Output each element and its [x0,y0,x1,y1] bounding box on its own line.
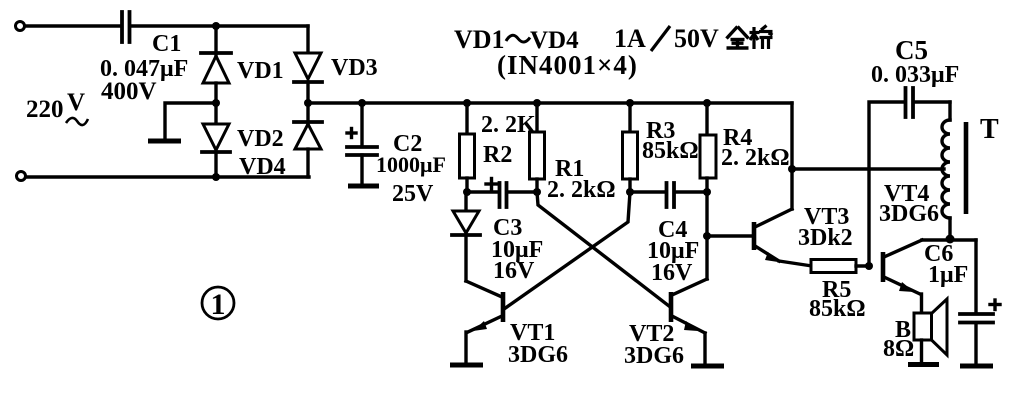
node output tap [703,232,711,240]
svg-text:0. 033μF: 0. 033μF [871,62,959,88]
svg-text:C1: C1 [152,31,181,57]
ground VT1 [450,363,483,368]
node feedback tap [788,165,796,173]
svg-text:2. 2kΩ: 2. 2kΩ [721,145,790,171]
terminal top-left [16,22,25,31]
svg-text:V: V [67,89,85,116]
diode VD3 [294,26,322,103]
ground C2 [348,184,379,189]
resistor R3 [623,103,638,192]
svg-text:1000μF: 1000μF [376,152,446,177]
resistor R2 [460,103,475,192]
node R3 top [626,99,634,107]
svg-text:16V: 16V [493,258,535,284]
transformer T core [964,122,969,214]
wire VT4 emitter to speaker [920,294,923,313]
capacitor C3 [467,179,537,208]
svg-text:VD3: VD3 [331,55,378,81]
node rectifier right mid [304,99,312,107]
transistor VT3 [754,209,812,266]
resistor R5 [811,260,869,273]
wire bottom input [26,175,309,178]
svg-text:85kΩ: 85kΩ [809,296,866,322]
wire C5 left branch [869,102,903,266]
node bottom junction [212,173,220,181]
diode VD2 [202,103,230,177]
svg-text:VD1: VD1 [237,58,284,84]
node R2 bottom [463,188,471,196]
wire output to VT3 base [707,234,752,237]
transistor VT2 [671,279,707,364]
wire to ground [165,103,216,139]
svg-text:T: T [980,114,999,145]
hanzi qiao (bridge) [750,26,773,50]
capacitor C1 [122,12,130,42]
diode in VT1 collector [452,192,480,281]
node top junction [212,22,220,30]
figure number 1 [202,287,234,321]
transistor VT4 [883,240,976,294]
capacitor C4 [630,183,707,207]
wire C5 to transformer top [948,102,951,120]
ground speaker [908,362,939,367]
svg-text:1A: 1A [614,24,646,53]
svg-text:R2: R2 [483,142,512,168]
svg-text:1: 1 [211,288,226,321]
terminal bottom-left [17,172,26,181]
wire main supply rail [308,101,792,104]
diode VD1 [201,26,231,103]
wire supply to transformer tap [792,167,944,170]
svg-text:220: 220 [26,96,64,123]
node C2 tap [358,99,366,107]
capacitor C2 [347,103,377,184]
resistor R4 [700,103,716,192]
node VT4 base [865,262,873,270]
svg-text:3Dk2: 3Dk2 [798,225,853,251]
wire R3 to VT1 base [504,192,630,309]
capacitor C6 [960,300,1000,363]
svg-text:25V: 25V [392,181,434,207]
transistor VT1 [466,281,503,363]
node R1 bottom [533,188,541,196]
wire rail end drop to VT3 collector [790,103,793,209]
svg-text:2. 2kΩ: 2. 2kΩ [547,177,616,203]
wire VT2 collector column [705,192,708,279]
resistor R1 [530,103,545,192]
ground C6 [960,364,993,369]
wire C1 to bridge [132,24,308,27]
transformer T winding [942,120,950,218]
svg-text:85kΩ: 85kΩ [642,138,699,164]
svg-text:VD4: VD4 [239,154,286,180]
wire winding bottom to collector node [948,218,951,239]
node R4 bottom [703,188,711,196]
svg-text:3DG6: 3DG6 [508,342,568,368]
node R3 bottom [626,188,634,196]
node rectifier left mid [212,99,220,107]
svg-text:(IN4001×4): (IN4001×4) [497,50,638,80]
ground [148,139,181,144]
svg-text:3DG6: 3DG6 [624,343,684,369]
node R1 top [533,99,541,107]
hanzi quan (full) [727,27,749,49]
svg-text:1μF: 1μF [928,262,968,288]
label 220V source [26,89,88,125]
node R2 top [463,99,471,107]
svg-text:VD2: VD2 [237,126,284,152]
svg-text:400V: 400V [101,78,157,105]
wire R1 to VT2 base [537,192,669,306]
node VT4 collector [946,235,955,244]
diode VD4 [294,103,322,177]
node R4 top [703,99,711,107]
svg-text:50V: 50V [674,24,719,53]
capacitor C5 [906,88,951,117]
title 1A/50V [614,24,719,53]
svg-text:C5: C5 [895,35,928,65]
wire collector to C6 [974,240,977,313]
wire top input [25,24,119,27]
svg-text:2. 2K: 2. 2K [481,112,536,138]
svg-text:16V: 16V [651,260,693,286]
ground VT2 [691,364,724,369]
svg-text:3DG6: 3DG6 [879,201,939,227]
svg-text:8Ω: 8Ω [883,336,914,362]
speaker B [914,299,947,362]
